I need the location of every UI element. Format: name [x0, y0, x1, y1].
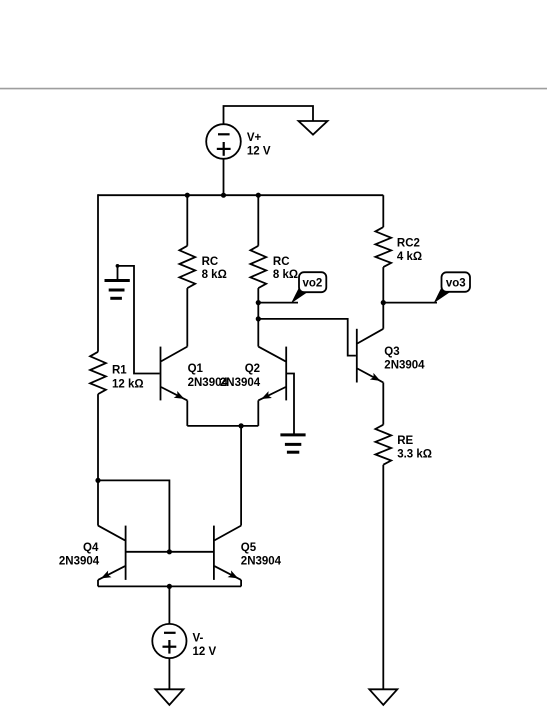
wire supply bus: [98, 194, 383, 196]
node junction vo2 tap: [256, 300, 261, 305]
wire Q4 emitter: [97, 580, 99, 587]
wire Q1 emitter: [186, 400, 188, 426]
transistor Q2 2N3904: [285, 347, 287, 401]
wire ground to Q1 base: [118, 266, 160, 374]
svg-text:Q1: Q1: [188, 363, 204, 375]
node junction RC2-vo3: [381, 300, 386, 305]
wire bus to RC1: [186, 195, 188, 246]
ground (triangle) at V+: [299, 121, 328, 135]
node ground tap: [116, 264, 120, 268]
svg-text:R1: R1: [112, 365, 127, 377]
resistor R1 12 kΩ: [90, 352, 106, 394]
svg-text:8 kΩ: 8 kΩ: [202, 269, 227, 281]
svg-text:Q2: Q2: [245, 363, 260, 375]
ground (triangle) at RE: [369, 689, 397, 705]
svg-text:Q5: Q5: [241, 542, 257, 554]
svg-text:8 kΩ: 8 kΩ: [273, 269, 298, 281]
svg-text:2N3904: 2N3904: [241, 556, 282, 568]
svg-text:Q4: Q4: [83, 542, 99, 554]
wire mirror emitter bus: [98, 585, 241, 587]
svg-text:V+: V+: [247, 132, 262, 144]
wire mirror base bus: [126, 551, 214, 553]
ground (bars) at Q2 base: [280, 433, 305, 436]
wire Q5 collector to emitter bus: [240, 426, 242, 526]
wire mirror base tie: [98, 480, 169, 551]
wire vo2 tap: [258, 302, 298, 304]
resistor RC 8 kΩ (left): [179, 246, 195, 288]
wire Q5 emitter: [240, 580, 242, 587]
wire R1 to Q4 collector: [97, 394, 99, 525]
svg-text:4 kΩ: 4 kΩ: [397, 251, 422, 263]
wire RC middle to Q2 collector: [257, 288, 259, 347]
node junction mirror bases: [167, 549, 172, 554]
resistor RC 8 kΩ (middle): [250, 246, 266, 288]
voltage source V- 12 V: [152, 624, 186, 658]
transistor Q3 2N3904: [356, 329, 358, 383]
voltage source V+ 12 V: [206, 124, 241, 159]
wire RE to ground: [382, 465, 384, 690]
ground (bars) at Q1 base: [117, 266, 119, 279]
node junction bus-RC(2): [256, 193, 261, 198]
svg-text:Q3: Q3: [384, 346, 399, 358]
wire RC1 to Q1 collector: [186, 288, 188, 347]
svg-text:vo2: vo2: [302, 278, 322, 290]
wire RC2 to Q3 collector: [382, 267, 384, 329]
svg-text:RC2: RC2: [397, 238, 420, 250]
wire Q3 emitter to RE: [382, 383, 384, 425]
svg-text:vo3: vo3: [446, 278, 466, 290]
svg-text:12 V: 12 V: [247, 145, 271, 157]
node junction bus-V+: [221, 193, 226, 198]
node junction Q3 base tap: [256, 316, 261, 321]
svg-text:V-: V-: [193, 633, 204, 645]
node junction emitters-Q5: [239, 423, 244, 428]
svg-text:12 kΩ: 12 kΩ: [112, 379, 144, 391]
resistor RE 3.3 kΩ: [375, 425, 391, 465]
wire V+ to supply bus: [223, 159, 225, 195]
node junction bus-RC1: [185, 193, 190, 198]
wire Q3 base: [258, 319, 356, 356]
transistor Q5 2N3904: [213, 526, 215, 580]
wire V+ top to ground: [224, 106, 314, 124]
resistor RC2 4 kΩ: [375, 227, 391, 267]
svg-text:3.3 kΩ: 3.3 kΩ: [397, 449, 432, 461]
svg-text:2N3904: 2N3904: [384, 360, 425, 372]
node junction R1-mirror: [95, 478, 100, 483]
wire V- to ground: [168, 658, 170, 689]
ground (triangle) at V-: [155, 689, 183, 705]
wire Q2 emitter: [257, 400, 259, 426]
wire bus to RC2: [382, 195, 384, 227]
wire to V-: [168, 586, 170, 624]
wire vo3 tap: [383, 302, 437, 304]
svg-text:RE: RE: [397, 435, 413, 447]
svg-text:RC: RC: [273, 256, 290, 268]
transistor Q4 2N3904: [125, 526, 127, 580]
label vo3: [434, 285, 450, 303]
page divider rule: [0, 88, 547, 90]
label vo2: [291, 285, 307, 304]
wire emitter bus: [187, 425, 258, 427]
transistor Q1 2N3904: [160, 347, 162, 401]
svg-text:2N3904: 2N3904: [220, 377, 261, 389]
wire Q2 base to ground: [286, 374, 294, 434]
svg-text:2N3904: 2N3904: [59, 556, 100, 568]
node junction emitter bus V-: [167, 584, 172, 589]
wire bus to R1: [97, 194, 99, 351]
wire bus to RC2 (middle): [257, 195, 259, 246]
svg-text:12 V: 12 V: [193, 646, 217, 658]
svg-text:RC: RC: [202, 256, 219, 268]
